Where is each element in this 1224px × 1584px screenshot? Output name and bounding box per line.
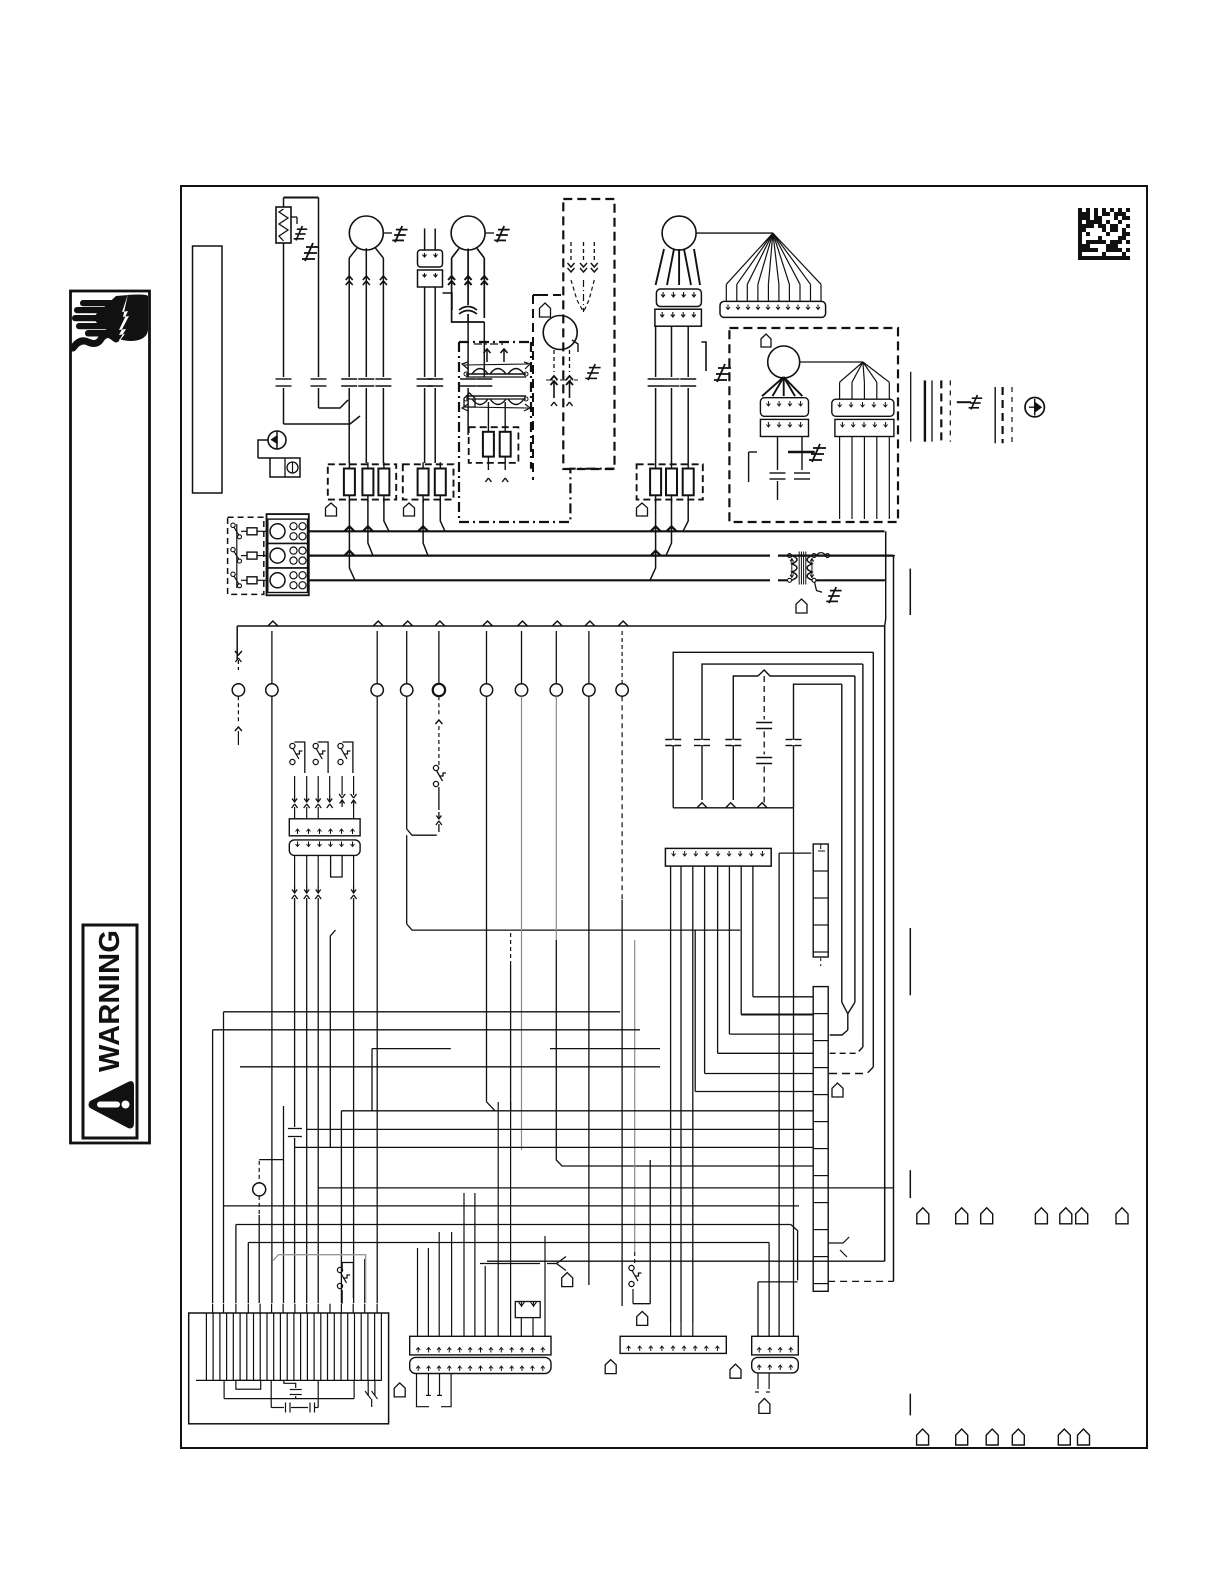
svg-text:WARNING: WARNING: [94, 930, 126, 1072]
